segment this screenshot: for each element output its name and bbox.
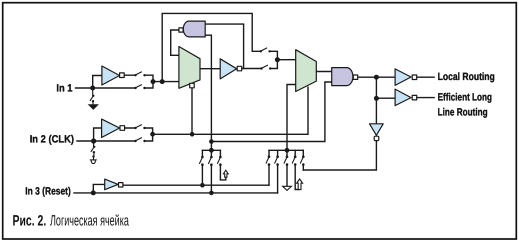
svg-text:In 3 (Reset): In 3 (Reset) xyxy=(25,186,71,198)
svg-text:Efficient Long: Efficient Long xyxy=(438,92,492,104)
svg-text:In 2 (CLK): In 2 (CLK) xyxy=(30,133,74,145)
svg-text:Local Routing: Local Routing xyxy=(438,71,495,83)
svg-text:Логическая ячейка: Логическая ячейка xyxy=(50,213,129,230)
svg-text:In 1: In 1 xyxy=(56,83,72,95)
svg-text:Рис. 2.: Рис. 2. xyxy=(13,213,47,230)
svg-text:Line Routing: Line Routing xyxy=(438,107,488,119)
